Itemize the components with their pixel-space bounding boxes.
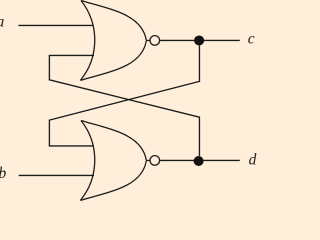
NOR gate U2: tip stub to bubble [146,159,150,161]
wire U1 output to c [160,39,240,41]
NOR gate U1: tip stub to bubble [146,39,150,41]
NOR gate U2: bottom edge [80,161,146,201]
NOR gate U2 (bottom): back arc [80,121,94,201]
junction node c [194,35,204,45]
junction node d [194,156,204,166]
wire input b [19,174,94,176]
wire input a [18,24,93,26]
inversion bubble U1 [150,36,160,46]
svg-text:d: d [249,151,257,168]
wire U2 output to d [160,159,240,161]
NOR gate U1: bottom edge [80,41,146,81]
wire feedback: top output node c down to bottom gate upper input [49,46,199,146]
svg-text:a: a [0,14,5,31]
NOR gate U1 (top): back arc [80,1,94,81]
labels group [0,14,257,183]
inversion bubble U2 [150,156,160,166]
wire feedback: bottom output node d up to top gate lower input [49,55,199,156]
svg-text:c: c [248,31,255,48]
NOR gate U2: top edge [81,121,146,161]
NOR gate U1: top edge [81,1,146,41]
svg-text:b: b [0,165,7,182]
